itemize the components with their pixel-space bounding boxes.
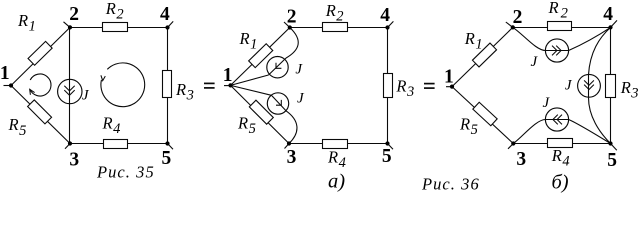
wire 1-3	[452, 87, 513, 144]
svg-text:1: 1	[444, 66, 454, 87]
wire overshoot tick at node 3	[65, 144, 70, 149]
wire through upper source	[269, 58, 286, 75]
node 5 dot	[608, 141, 612, 145]
current source J middle double chevron down	[584, 80, 594, 89]
curve upper source to node 2	[286, 28, 298, 59]
svg-text:2: 2	[513, 7, 523, 28]
current source J bottom double chevron left	[553, 115, 562, 125]
resistor R5	[473, 102, 497, 126]
wire 2-4 top	[290, 27, 388, 29]
svg-text:5: 5	[607, 150, 617, 171]
svg-text:4: 4	[160, 4, 170, 25]
curve top source to node 4	[569, 27, 611, 50]
current source J lower circle	[267, 93, 288, 114]
wire overshoot tick at node 3	[285, 144, 290, 149]
current source J top double chevron right	[552, 46, 561, 56]
wire through middle source	[588, 75, 590, 98]
svg-text:а): а)	[328, 170, 345, 192]
node 1 dot	[9, 83, 13, 87]
wire overshoot tick at node 2	[506, 22, 513, 27]
bottom source wire through circle	[546, 119, 569, 121]
resistor R2	[323, 23, 348, 32]
resistor R3	[384, 74, 393, 98]
wire overshoot tick at node 4	[388, 21, 394, 27]
node 5 dot	[165, 141, 169, 145]
node 4 dot	[385, 25, 389, 29]
node 4 dot	[165, 25, 169, 29]
current source J middle circle	[578, 74, 601, 97]
curve node 4 to middle source	[589, 27, 611, 74]
resistor R4	[104, 140, 128, 149]
wire 3-5 bottom	[70, 143, 168, 145]
curve node 3 to bottom source	[513, 120, 545, 144]
resistor R3	[163, 71, 172, 98]
wire 1-3	[231, 85, 290, 143]
wire 4-5 right	[610, 28, 612, 144]
wire 1 to lower source	[231, 85, 272, 95]
wire 1-3	[11, 86, 70, 144]
wire 2-3 vertical	[69, 28, 71, 144]
curve middle source to node 5	[589, 98, 611, 144]
node 1 dot	[228, 83, 232, 87]
node 3 dot	[68, 141, 72, 145]
resistor R4	[323, 140, 348, 149]
resistor R1	[28, 41, 52, 65]
svg-text:2: 2	[287, 7, 297, 28]
wire through top source	[546, 50, 569, 52]
wire 2-4 top	[513, 27, 611, 29]
wire through lower source	[271, 95, 286, 111]
svg-text:5: 5	[382, 146, 392, 167]
svg-text:3: 3	[516, 149, 526, 170]
node 4 dot	[608, 25, 612, 29]
wire 3-5 bottom	[513, 143, 610, 145]
wire overshoot tick at node 2	[284, 22, 290, 28]
curve bottom source to node 5	[569, 120, 611, 144]
current source J top circle	[545, 39, 568, 62]
svg-text:Рис. 35: Рис. 35	[96, 163, 155, 182]
resistor R5	[28, 100, 52, 124]
wire overshoot tick at node 3	[508, 144, 513, 149]
current source J circle	[58, 79, 82, 103]
wire 3-5 bottom	[289, 143, 388, 145]
resistor R5	[249, 100, 273, 124]
current source J double chevron down	[64, 86, 74, 96]
resistor R4	[548, 139, 573, 148]
wire overshoot tick at node 2	[64, 22, 71, 28]
node 1 stub wire	[224, 85, 231, 87]
resistor R1	[249, 44, 273, 68]
resistor R1	[472, 43, 496, 67]
wire 1-2	[231, 28, 290, 86]
current source J upper circle	[267, 56, 288, 77]
wire 1-2	[11, 27, 70, 85]
mesh loop arrow big (centre mesh)	[101, 63, 145, 107]
node 3 dot	[511, 141, 515, 145]
svg-text:3: 3	[287, 147, 297, 168]
svg-text:1: 1	[223, 65, 233, 86]
resistor R2	[548, 22, 572, 31]
wire 1-2	[452, 27, 513, 86]
svg-text:2: 2	[69, 4, 79, 25]
current source J upper arrowhead	[276, 63, 281, 69]
curve lower source to node 3	[286, 111, 297, 144]
svg-text:4: 4	[380, 5, 390, 26]
node 2 dot	[68, 25, 72, 29]
wire overshoot tick at node 5	[611, 144, 617, 151]
wire 2-4 top	[70, 27, 168, 29]
wire overshoot tick at node 4	[168, 21, 174, 27]
mesh loop arrow small (near node 1)	[30, 74, 51, 96]
wire through bottom source	[546, 119, 569, 121]
resistor R2	[103, 23, 128, 32]
middle source wire through circle	[588, 75, 590, 98]
wire overshoot tick at node 5	[168, 144, 174, 150]
current source J wire through	[69, 79, 71, 103]
svg-text:3: 3	[69, 149, 79, 170]
svg-text:5: 5	[162, 148, 172, 169]
svg-text:б): б)	[552, 172, 569, 194]
wire overshoot tick at node 5	[388, 144, 394, 150]
node 1 stub wire	[446, 86, 452, 88]
node 3 dot	[287, 141, 291, 145]
svg-text:Рис. 36: Рис. 36	[421, 174, 480, 193]
svg-text:4: 4	[603, 4, 613, 25]
node 1 dot	[450, 85, 454, 89]
wire 1 to upper source	[231, 75, 269, 85]
wire overshoot tick at node 4	[611, 20, 618, 27]
node 2 dot	[288, 25, 292, 29]
node 1 stub wire	[4, 85, 12, 87]
resistor R3	[606, 75, 616, 98]
svg-text:1: 1	[0, 63, 10, 84]
current source J bottom circle	[545, 108, 568, 131]
wire 4-5 right	[167, 28, 169, 144]
wire 4-5 right	[387, 28, 389, 144]
current source J lower arrowhead	[276, 100, 281, 105]
top source wire through circle	[546, 50, 569, 52]
node 2 dot	[511, 25, 515, 29]
node 5 dot	[385, 141, 389, 145]
curve node 2 to top source	[513, 27, 546, 50]
